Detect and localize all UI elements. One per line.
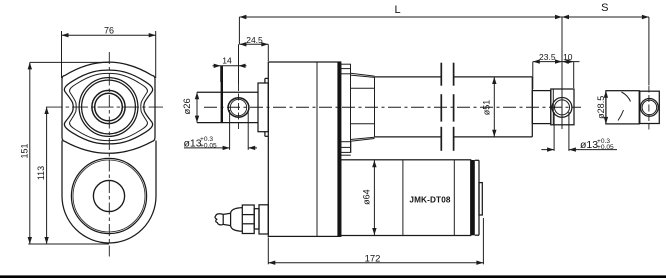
svg-text:14: 14 bbox=[222, 55, 232, 65]
svg-text:JMK-DT08: JMK-DT08 bbox=[409, 195, 451, 204]
svg-text:ø26: ø26 bbox=[181, 98, 192, 114]
svg-text:+0.05: +0.05 bbox=[597, 144, 614, 151]
svg-text:76: 76 bbox=[104, 26, 114, 36]
svg-text:23.5: 23.5 bbox=[539, 52, 556, 62]
svg-text:L: L bbox=[394, 4, 400, 16]
svg-text:ø13: ø13 bbox=[580, 139, 598, 151]
svg-text:113: 113 bbox=[36, 166, 46, 180]
svg-text:ø64: ø64 bbox=[362, 189, 372, 205]
svg-text:10: 10 bbox=[563, 52, 573, 62]
svg-text:24.5: 24.5 bbox=[246, 35, 263, 45]
svg-text:+0.05: +0.05 bbox=[200, 142, 217, 149]
svg-text:ø51: ø51 bbox=[481, 100, 491, 116]
svg-text:151: 151 bbox=[19, 143, 29, 158]
svg-text:172: 172 bbox=[365, 254, 381, 265]
svg-text:S: S bbox=[601, 2, 608, 14]
svg-text:ø28.5: ø28.5 bbox=[596, 96, 606, 119]
svg-text:ø13: ø13 bbox=[184, 137, 202, 149]
